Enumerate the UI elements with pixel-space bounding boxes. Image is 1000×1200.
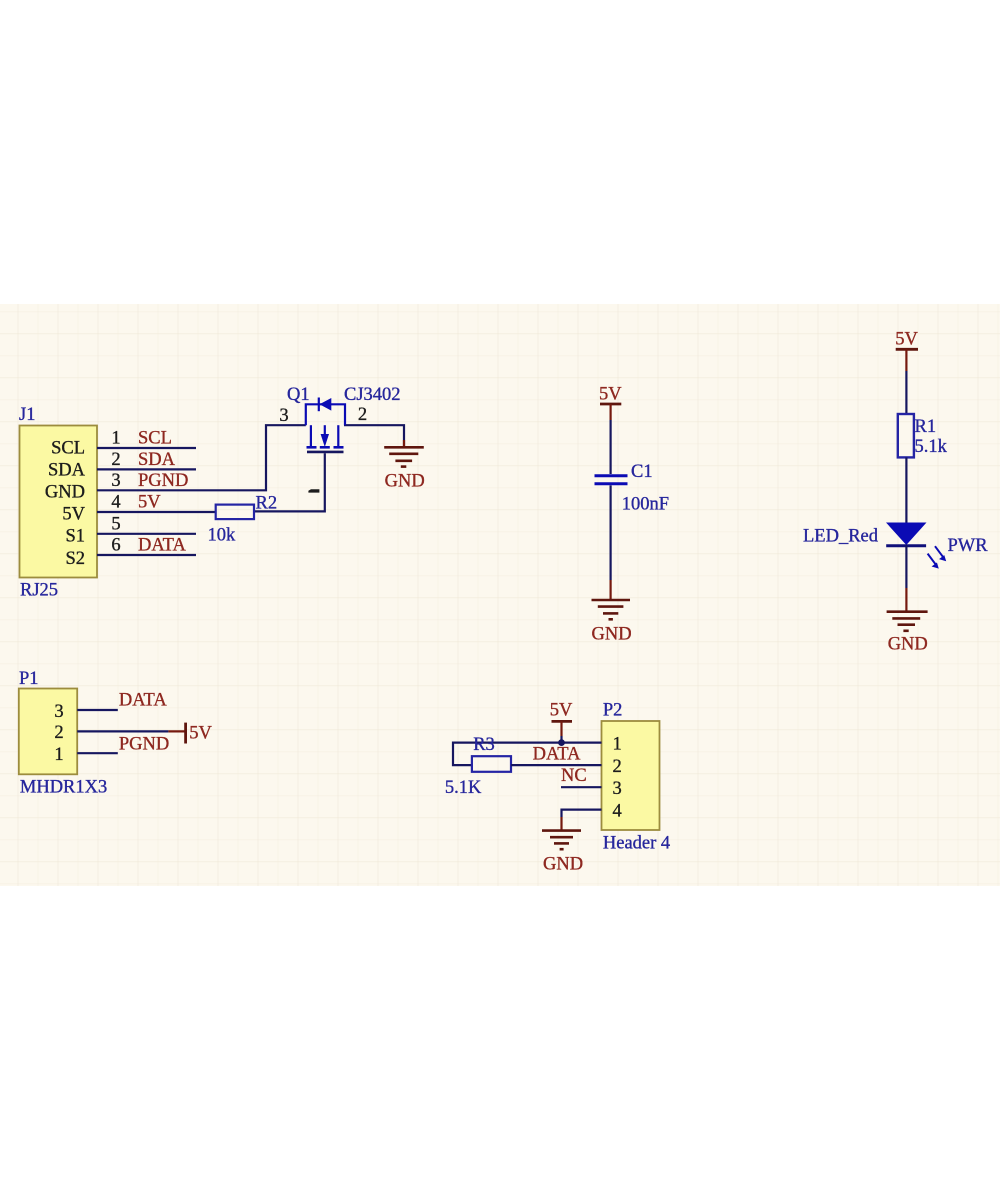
svg-text:2: 2: [111, 450, 120, 470]
ground symbol at C1: [592, 600, 631, 619]
svg-text:Q1: Q1: [287, 385, 310, 405]
LED emission arrows: [928, 546, 947, 568]
P2 pin 3 wire: [561, 786, 602, 788]
svg-text:SCL: SCL: [138, 429, 172, 449]
svg-text:3: 3: [279, 406, 288, 426]
wire DATA net to P2 pin 1: [453, 743, 602, 766]
svg-text:R2: R2: [256, 494, 278, 514]
P1 pin 3 wire: [77, 709, 118, 711]
wire R3 to P2 pin 2: [511, 764, 602, 766]
svg-text:CJ3402: CJ3402: [344, 385, 401, 405]
svg-text:3: 3: [111, 471, 120, 491]
P1 pin 1 wire: [77, 752, 118, 754]
power port 5V at R1: [896, 349, 918, 371]
ground symbol at LED: [887, 612, 928, 631]
svg-text:GND: GND: [888, 635, 928, 655]
J1 pin names: [45, 439, 86, 570]
svg-text:2: 2: [613, 757, 622, 777]
wire LED to GND: [905, 546, 907, 588]
P2 pin numbers: [613, 734, 622, 821]
svg-text:R3: R3: [473, 735, 495, 755]
ground symbol at P2: [542, 831, 581, 850]
svg-text:LED_Red: LED_Red: [803, 527, 879, 547]
svg-text:5V: 5V: [138, 493, 161, 513]
svg-text:5V: 5V: [62, 505, 85, 525]
svg-text:MHDR1X3: MHDR1X3: [20, 778, 107, 798]
svg-text:2: 2: [358, 405, 367, 425]
svg-text:5V: 5V: [189, 724, 212, 744]
svg-text:100nF: 100nF: [622, 495, 669, 515]
connector P1 body: [19, 689, 77, 775]
svg-text:5: 5: [111, 514, 120, 534]
J1 pin 5 wire: [97, 533, 196, 535]
svg-text:S1: S1: [65, 527, 85, 547]
svg-text:PGND: PGND: [138, 471, 188, 491]
svg-text:DATA: DATA: [138, 536, 186, 556]
svg-text:5V: 5V: [895, 330, 918, 350]
svg-text:1: 1: [613, 734, 622, 754]
wire C1 to GND: [609, 485, 611, 580]
wire Q1 gate to R2: [254, 453, 325, 511]
connector J1 body: [20, 426, 98, 578]
svg-text:3: 3: [54, 702, 63, 722]
svg-text:DATA: DATA: [533, 745, 581, 765]
svg-text:R1: R1: [915, 417, 937, 437]
Q1 gate pin 1 marker: [308, 489, 319, 492]
svg-text:6: 6: [111, 536, 120, 556]
svg-text:5V: 5V: [550, 701, 573, 721]
transistor Q1 body diode: [306, 398, 345, 426]
svg-text:SCL: SCL: [51, 439, 85, 459]
P1 pin 2 wire: [77, 730, 168, 732]
svg-text:PWR: PWR: [948, 536, 989, 556]
svg-text:SDA: SDA: [138, 450, 176, 470]
P2 pin 4 wire to GND: [562, 810, 602, 817]
wire 5V to C1: [609, 420, 611, 474]
svg-text:GND: GND: [385, 472, 425, 492]
svg-text:P1: P1: [19, 669, 39, 689]
power port 5V at P2: [552, 721, 573, 736]
capacitor C1: [595, 476, 628, 484]
svg-text:3: 3: [613, 779, 622, 799]
svg-text:5.1K: 5.1K: [445, 778, 482, 798]
svg-text:4: 4: [111, 493, 120, 513]
svg-text:10k: 10k: [208, 526, 237, 546]
connector P2 body: [602, 721, 660, 830]
J1 pin 4 wire (5V net to R2): [97, 511, 216, 513]
svg-text:P2: P2: [603, 701, 623, 721]
transistor Q1 MOSFET symbol: [307, 425, 344, 452]
junction dot on DATA net: [558, 739, 565, 746]
svg-text:1: 1: [111, 429, 120, 449]
svg-text:PGND: PGND: [119, 735, 169, 755]
svg-text:NC: NC: [561, 766, 587, 786]
svg-text:5V: 5V: [599, 385, 622, 405]
power port 5V at P1: [168, 723, 185, 744]
resistor R2: [216, 505, 254, 519]
schematic sheet background: [0, 304, 1000, 886]
wire 5V to R1: [905, 371, 907, 414]
svg-text:S2: S2: [65, 549, 85, 569]
svg-text:Header 4: Header 4: [603, 834, 670, 854]
wire Q1 pin 2 to ground: [344, 425, 404, 446]
svg-text:2: 2: [54, 723, 63, 743]
J1 pin 6 wire: [97, 554, 196, 556]
svg-text:RJ25: RJ25: [20, 581, 58, 601]
svg-text:SDA: SDA: [48, 461, 86, 481]
svg-text:1: 1: [54, 745, 63, 765]
svg-text:GND: GND: [592, 625, 632, 645]
svg-text:GND: GND: [543, 855, 583, 875]
resistor R3: [472, 756, 511, 772]
svg-text:5.1k: 5.1k: [915, 437, 948, 457]
svg-text:4: 4: [613, 801, 622, 821]
P1 pin numbers: [54, 702, 63, 765]
svg-text:GND: GND: [45, 483, 85, 503]
wire R1 to LED: [905, 457, 907, 522]
LED LED_Red: [886, 523, 927, 546]
svg-text:DATA: DATA: [119, 691, 167, 711]
J1 pin 3 wire (PGND net to Q1 pin 3): [97, 425, 306, 490]
ground symbol at Q1: [384, 440, 424, 467]
svg-text:C1: C1: [631, 462, 653, 482]
power port 5V at C1: [600, 404, 621, 420]
resistor R1: [898, 414, 914, 457]
svg-text:J1: J1: [19, 405, 35, 425]
J1 pin 1 wire: [97, 447, 196, 449]
J1 pin 2 wire: [97, 468, 196, 470]
